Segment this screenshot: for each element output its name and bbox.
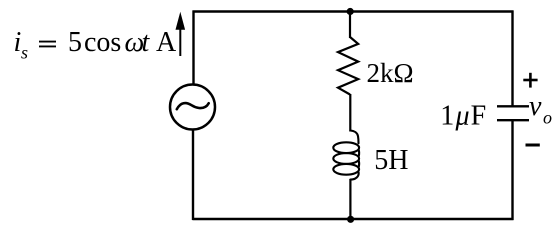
svg-text:5H: 5H — [374, 145, 408, 176]
current direction arrow — [176, 12, 186, 56]
svg-text:s: s — [21, 43, 28, 63]
svg-text:1: 1 — [440, 101, 454, 132]
node bottom junction — [347, 216, 354, 223]
wire top stub to resistor — [349, 12, 351, 39]
label vo — [529, 91, 552, 128]
svg-text:o: o — [543, 107, 552, 127]
label is = 5 cos wt A — [14, 27, 178, 63]
current source I1 — [170, 85, 215, 130]
svg-text:2kΩ: 2kΩ — [367, 58, 414, 88]
wire resistor to inductor — [349, 94, 351, 132]
svg-text:μ: μ — [455, 101, 470, 132]
svg-text:v: v — [529, 91, 542, 122]
node top junction — [347, 8, 354, 15]
wire top — [193, 10, 514, 12]
svg-text:5: 5 — [68, 27, 82, 58]
wire right lower — [511, 121, 513, 221]
svg-text:F: F — [471, 101, 487, 132]
minus sign — [526, 144, 540, 147]
label 1uF — [440, 101, 486, 132]
inductor L1 — [333, 131, 359, 180]
wire inductor to bottom — [349, 179, 351, 219]
plus sign — [523, 73, 537, 88]
svg-text:A: A — [156, 27, 177, 58]
capacitor C1 plates — [497, 106, 529, 120]
wire right upper — [511, 11, 513, 106]
svg-text:cos: cos — [84, 27, 121, 58]
svg-text:t: t — [142, 27, 151, 58]
resistor R1 zigzag — [338, 37, 358, 95]
wire left lower — [192, 130, 194, 221]
wire bottom — [193, 218, 514, 220]
wire left upper — [192, 11, 194, 86]
